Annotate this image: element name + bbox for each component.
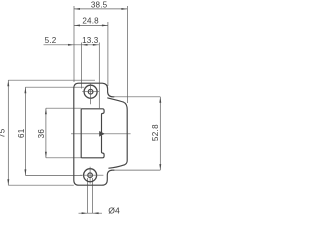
svg-text:75: 75 [0,128,7,138]
extension line 36 top (opening top edge extended) [46,107,81,109]
dimension line 36 [45,108,47,158]
crosshair bottom hole horizontal [80,174,104,176]
arrow 5.2 (leader, points right at plate edge ext) [68,44,74,46]
svg-text:Ø4: Ø4 [108,205,120,215]
arrow 61 top [24,87,26,93]
arrow 52.8 top [159,97,161,103]
dimension line diameter 4 [79,212,103,214]
svg-text:24.8: 24.8 [82,16,99,25]
centerline of latch opening [71,133,131,135]
svg-text:36: 36 [37,129,46,139]
extension line 38.5 right [126,6,128,103]
dimension line 52.8 [159,97,161,170]
screw hole bottom inner [88,173,93,178]
arrow 75 bottom [7,179,9,185]
crosshair top hole horizontal [82,91,99,93]
extension line 5.2 right / opening left [81,43,83,89]
arrow 36 bottom [45,152,47,158]
extension line 52.8 top (flange top extended) [112,96,160,98]
arrow latch direction on centerline [99,131,105,137]
arrow diameter-4 left (outside) [82,212,88,214]
svg-text:61: 61 [17,128,26,138]
dimension line 75 [7,80,9,185]
arrow 13.3 left [82,44,88,46]
latch opening [81,109,104,158]
dimension line 24.8 [74,24,108,26]
arrow 38.5 left [74,8,80,10]
screw hole bottom outer [84,169,97,182]
arrow 24.8 right [102,24,108,26]
arrow 52.8 bottom [159,164,161,170]
crosshair bottom hole vertical [89,167,91,184]
strike plate outline [74,83,114,185]
arrow 36 top [45,108,47,114]
dimension line 38.5 [74,8,127,10]
arrow 24.8 left [74,24,80,26]
extension line 36 bottom (opening bottom extended) [46,157,81,159]
extension line 24.8 right [107,22,109,86]
dimension line 5.2 leader and 13.3 [44,44,99,46]
svg-text:38.5: 38.5 [91,1,108,10]
extension line 75 top [8,79,95,81]
extension line left of 38.5/24.8 (plate left edge extended up) [73,6,75,82]
arrow 13.3 right [93,44,99,46]
arrow diameter-4 right (outside) [93,212,99,214]
crosshair top hole vertical [90,83,92,105]
extension line diameter left [87,178,89,213]
arrow 75 top [7,80,9,86]
flange bend fold lines and right edge [108,98,128,168]
dimension line 61 [24,87,26,175]
extension line 13.3 right [98,43,100,109]
extension line 61 top [25,86,84,88]
extension line 52.8 bottom (flange bottom extended) [111,169,160,171]
arrow 38.5 right [121,8,127,10]
screw hole top outer [84,85,97,98]
svg-text:13.3: 13.3 [82,36,99,45]
extension line 61 bottom [25,174,82,176]
svg-text:5.2: 5.2 [45,36,57,45]
extension line 75 bottom (plate bottom extended) [8,184,74,186]
arrow 61 bottom [24,169,26,175]
extension line diameter right [92,178,94,213]
svg-text:52.8: 52.8 [151,124,160,141]
screw hole top inner [88,89,93,94]
